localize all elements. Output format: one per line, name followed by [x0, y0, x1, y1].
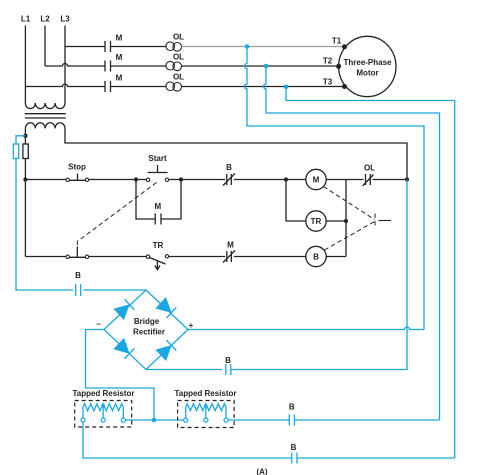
svg-text:T3: T3	[323, 78, 333, 87]
svg-text:+: +	[189, 321, 194, 330]
svg-text:Motor: Motor	[356, 69, 378, 78]
svg-text:L1: L1	[21, 15, 31, 24]
svg-text:Three-Phase: Three-Phase	[343, 58, 392, 67]
svg-text:Tapped Resistor: Tapped Resistor	[72, 389, 134, 398]
svg-text:B: B	[313, 253, 319, 262]
svg-text:Bridge: Bridge	[134, 317, 160, 326]
svg-text:TR: TR	[153, 241, 164, 250]
svg-text:B: B	[75, 271, 81, 280]
svg-text:Tapped Resistor: Tapped Resistor	[174, 389, 236, 398]
svg-text:B: B	[225, 356, 231, 365]
svg-text:T2: T2	[323, 57, 333, 66]
svg-text:M: M	[313, 176, 320, 185]
svg-text:Rectifier: Rectifier	[133, 328, 165, 337]
svg-text:TR: TR	[311, 217, 322, 226]
svg-text:M: M	[154, 202, 161, 211]
svg-text:Stop: Stop	[68, 163, 86, 172]
svg-text:M: M	[116, 53, 123, 62]
svg-text:OL: OL	[173, 73, 184, 82]
svg-text:M: M	[116, 34, 123, 43]
svg-text:M: M	[227, 241, 234, 250]
svg-text:B: B	[291, 443, 297, 452]
svg-text:–: –	[96, 320, 101, 329]
svg-text:L3: L3	[60, 15, 70, 24]
svg-text:M: M	[116, 74, 123, 83]
svg-text:T1: T1	[332, 37, 342, 46]
svg-text:OL: OL	[364, 164, 375, 173]
svg-text:B: B	[289, 403, 295, 412]
svg-text:OL: OL	[173, 53, 184, 62]
svg-text:B: B	[226, 163, 232, 172]
svg-text:L2: L2	[40, 15, 50, 24]
svg-text:Start: Start	[148, 154, 167, 163]
svg-text:OL: OL	[173, 33, 184, 42]
svg-text:(A): (A)	[256, 468, 267, 475]
